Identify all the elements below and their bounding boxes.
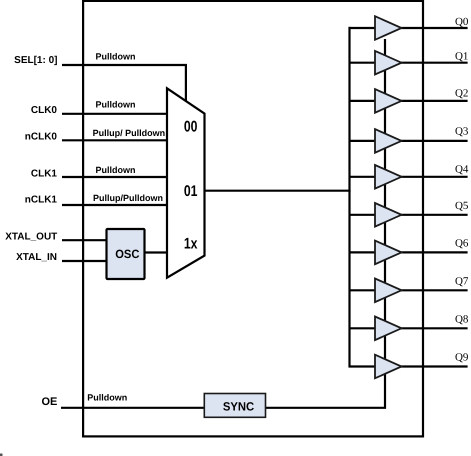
svg-text:nCLK0: nCLK0 bbox=[25, 132, 58, 143]
svg-text:Q4: Q4 bbox=[455, 163, 469, 175]
svg-text:1x: 1x bbox=[184, 236, 198, 253]
svg-text:CLK0: CLK0 bbox=[31, 105, 58, 116]
svg-text:Q5: Q5 bbox=[455, 200, 469, 212]
svg-text:Q2: Q2 bbox=[455, 87, 468, 99]
svg-text:OSC: OSC bbox=[115, 247, 139, 261]
svg-text:Q6: Q6 bbox=[455, 237, 469, 249]
svg-text:Q0: Q0 bbox=[455, 16, 469, 28]
svg-text:00: 00 bbox=[184, 119, 198, 136]
svg-text:XTAL_IN: XTAL_IN bbox=[16, 252, 57, 263]
svg-text:Pullup/Pulldown: Pullup/Pulldown bbox=[93, 193, 163, 203]
svg-text:Pulldown: Pulldown bbox=[96, 165, 136, 175]
svg-text:Pulldown: Pulldown bbox=[96, 52, 136, 62]
svg-text:Q3: Q3 bbox=[455, 125, 469, 137]
svg-text:Q8: Q8 bbox=[455, 313, 469, 325]
svg-text:SYNC: SYNC bbox=[223, 399, 255, 413]
svg-text:Q1: Q1 bbox=[455, 51, 468, 63]
svg-text:Pullup/ Pulldown: Pullup/ Pulldown bbox=[93, 128, 166, 138]
svg-text:Q9: Q9 bbox=[455, 352, 469, 364]
svg-text:01: 01 bbox=[184, 183, 198, 200]
svg-text:SEL[1: 0]: SEL[1: 0] bbox=[14, 55, 57, 66]
svg-text:nCLK1: nCLK1 bbox=[25, 195, 58, 206]
svg-text:Q7: Q7 bbox=[455, 275, 469, 287]
svg-text:XTAL_OUT: XTAL_OUT bbox=[5, 231, 57, 242]
svg-text:OE: OE bbox=[41, 396, 57, 408]
svg-text:Pulldown: Pulldown bbox=[96, 100, 136, 110]
svg-text:CLK1: CLK1 bbox=[31, 169, 58, 180]
svg-text:Pulldown: Pulldown bbox=[87, 393, 127, 403]
